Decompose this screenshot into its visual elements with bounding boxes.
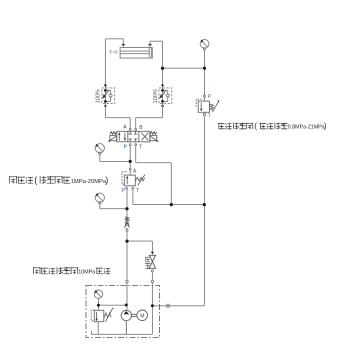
svg-text:10MPa: 10MPa [78, 270, 95, 276]
svg-text:F=0: F=0 [110, 50, 118, 55]
svg-text:): ) [324, 122, 327, 131]
svg-text:100%: 100% [153, 89, 159, 103]
svg-text:1MPa-20MPa: 1MPa-20MPa [71, 179, 107, 185]
svg-text:): ) [105, 175, 108, 185]
svg-text:(: ( [254, 122, 257, 131]
svg-text:T: T [208, 113, 211, 119]
svg-text:T: T [136, 188, 139, 194]
svg-text:100%: 100% [96, 89, 102, 103]
svg-text:(: ( [34, 175, 37, 185]
svg-text:T: T [139, 145, 142, 151]
svg-text:M: M [140, 313, 144, 319]
svg-text:0.8MPa-21MPa: 0.8MPa-21MPa [288, 125, 325, 131]
